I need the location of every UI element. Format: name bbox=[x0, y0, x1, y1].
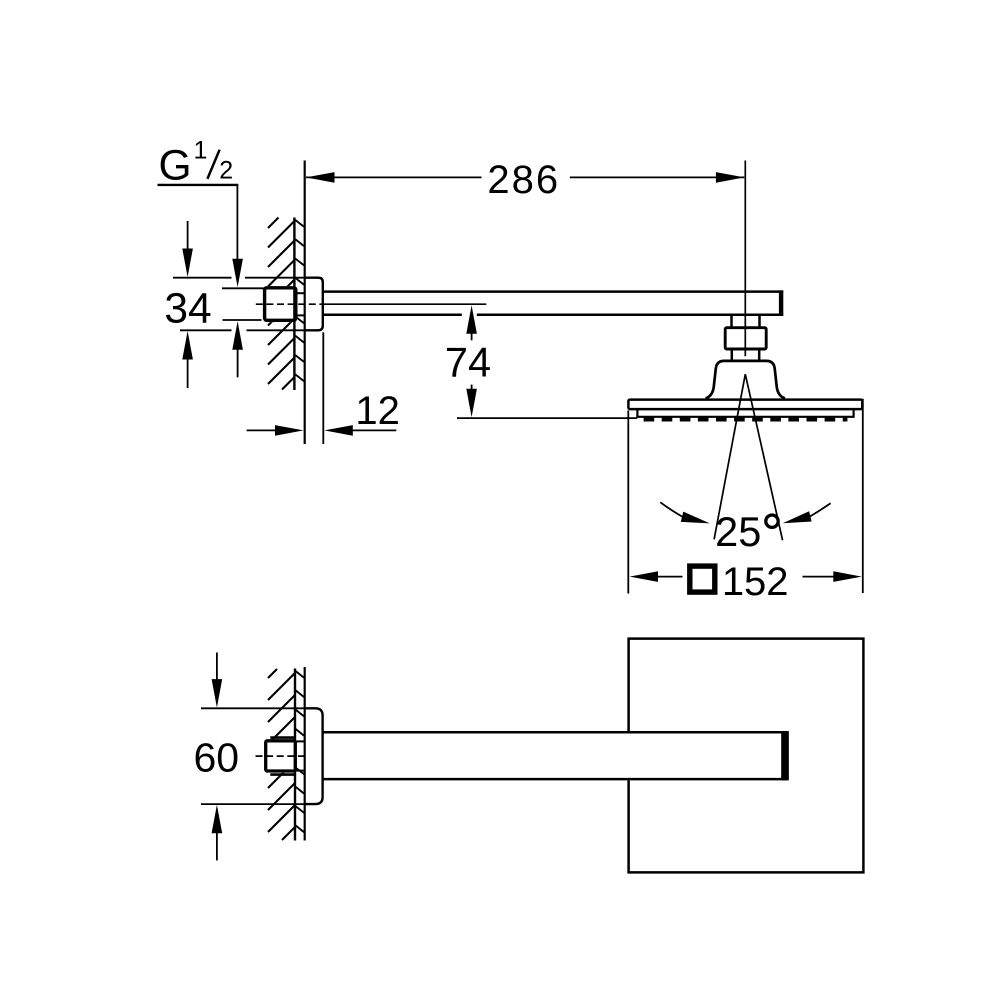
dimension 12 arrows bbox=[247, 429, 276, 431]
thread shaft lines through wall (bottom view) bbox=[295, 740, 305, 742]
thread shaft lines through wall (side view) bbox=[296, 292, 305, 294]
shower head plate bbox=[628, 400, 862, 410]
svg-text:286: 286 bbox=[487, 158, 560, 202]
ball joint upper neck bbox=[730, 316, 733, 327]
shower arm (side view) bbox=[323, 290, 783, 293]
svg-text:25: 25 bbox=[715, 508, 761, 555]
svg-text:34: 34 bbox=[164, 285, 211, 332]
wall finish-layer fine hatching (bottom view) bbox=[296, 671, 305, 678]
wall surface line left (bottom view) bbox=[294, 669, 296, 841]
thread reference lines bbox=[222, 287, 264, 289]
ball joint nut bbox=[725, 328, 766, 349]
74 bottom reference line (spray face) bbox=[457, 417, 637, 419]
dimension 286 line bbox=[306, 176, 482, 178]
square head plate (bottom view) bbox=[629, 639, 864, 873]
wall surface line right (bottom view) bbox=[304, 667, 306, 841]
wall escutcheon flange (side view) bbox=[305, 278, 323, 331]
thread shoulder (bottom view) bbox=[270, 736, 295, 739]
svg-text:12: 12 bbox=[355, 389, 400, 433]
centre line through nut (side view) bbox=[256, 303, 323, 305]
spray nozzles bbox=[644, 417, 848, 421]
wall escutcheon flange (bottom view) bbox=[305, 708, 323, 804]
shower head dome bbox=[706, 361, 785, 398]
dimension 60 extension lines bbox=[201, 707, 304, 709]
dimension 34 arrows bbox=[187, 221, 189, 252]
dimension 12 extension line bbox=[322, 332, 324, 444]
dimension 152 extension lines bbox=[627, 411, 629, 594]
centre line through nut (bottom view) bbox=[256, 755, 305, 757]
spray angle arrow left bbox=[660, 502, 682, 517]
74 reference line at arm axis bbox=[323, 303, 487, 305]
svg-text:74: 74 bbox=[445, 338, 491, 385]
shower arm (bottom view) bbox=[323, 731, 788, 734]
ball joint lower neck bbox=[731, 349, 734, 360]
thread nut (bottom view) bbox=[266, 741, 296, 771]
G 1/2 underline and leader bbox=[158, 184, 239, 186]
shower head rim bbox=[637, 410, 853, 417]
thread nut (side view) bbox=[265, 288, 296, 321]
square symbol for 152 bbox=[690, 566, 715, 592]
spray angle lines 25deg bbox=[714, 374, 745, 539]
svg-text:2: 2 bbox=[219, 156, 233, 184]
dimension 152 line and arrows bbox=[630, 571, 659, 582]
286 right extension / head centre line bbox=[744, 161, 746, 357]
wall finish-layer fine hatching (side view) bbox=[295, 220, 304, 227]
dimension 60 arrows bbox=[216, 653, 218, 682]
svg-text:152: 152 bbox=[722, 560, 789, 604]
wall surface line left (side view) bbox=[293, 218, 295, 391]
spray angle arrow right bbox=[810, 503, 831, 516]
svg-text:G: G bbox=[159, 143, 192, 190]
svg-text:60: 60 bbox=[193, 735, 239, 781]
dimension 34 extension lines bbox=[173, 277, 232, 279]
svg-text:1: 1 bbox=[193, 137, 207, 165]
wall surface line right / 286 extension line (side view) bbox=[304, 161, 306, 445]
dimension 74 arrows bbox=[466, 305, 477, 334]
